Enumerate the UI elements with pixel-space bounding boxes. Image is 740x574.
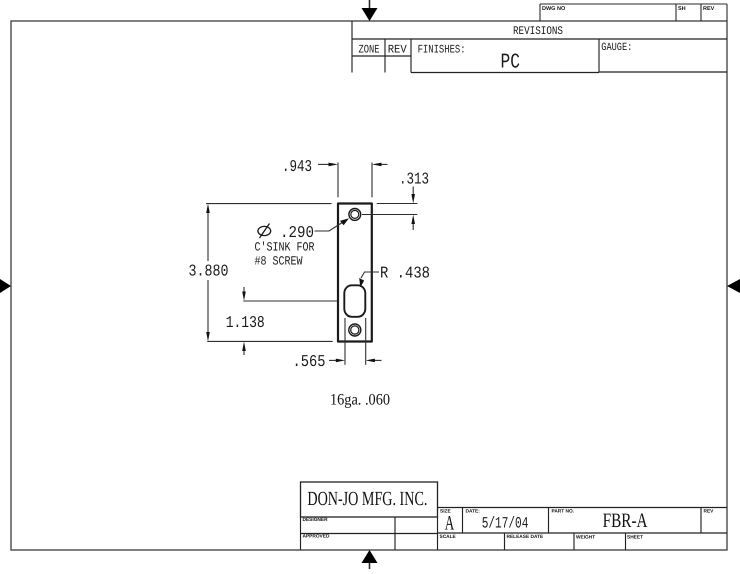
svg-text:REVISIONS: REVISIONS — [513, 25, 563, 38]
svg-text:ZONE: ZONE — [359, 44, 380, 57]
svg-text:#8 SCREW: #8 SCREW — [255, 255, 303, 269]
center marker right — [727, 279, 740, 293]
svg-text:GAUGE:: GAUGE: — [601, 42, 632, 54]
svg-text:REV: REV — [388, 44, 407, 57]
svg-text:C'SINK FOR: C'SINK FOR — [255, 241, 315, 255]
title block designer/approved rows — [301, 517, 438, 550]
svg-text:16ga. .060: 16ga. .060 — [330, 392, 390, 409]
dim .313 reference lines — [362, 204, 417, 215]
dim 3.880 arrows — [206, 204, 210, 342]
svg-text:WEIGHT: WEIGHT — [576, 535, 595, 541]
svg-text:SHEET: SHEET — [627, 535, 643, 541]
svg-text:DATE:: DATE: — [466, 509, 481, 515]
svg-text:.565: .565 — [293, 352, 326, 371]
title block right grid — [438, 508, 728, 551]
top strip header lines — [540, 4, 727, 21]
dim .565 arrows — [329, 359, 382, 363]
dim 1.138 slot centre line — [243, 300, 338, 302]
dim 3.880 extension line top — [206, 203, 332, 205]
svg-text:DESIGNER: DESIGNER — [303, 517, 329, 523]
diameter symbol — [258, 224, 271, 239]
svg-text:PC: PC — [501, 52, 521, 75]
svg-text:DWG NO: DWG NO — [542, 6, 566, 12]
svg-text:SCALE: SCALE — [440, 534, 457, 540]
svg-text:SH: SH — [678, 6, 686, 12]
center marker left — [0, 279, 11, 293]
dim .943 extension lines — [338, 163, 372, 198]
svg-text:R .438: R .438 — [380, 264, 430, 283]
svg-text:5/17/04: 5/17/04 — [482, 515, 529, 533]
dim .313 arrows — [411, 187, 415, 231]
svg-text:PART NO.: PART NO. — [552, 509, 575, 515]
bottom hole inner — [351, 326, 359, 334]
svg-text:A: A — [445, 512, 455, 534]
svg-text:DON-JO MFG. INC.: DON-JO MFG. INC. — [307, 488, 427, 510]
center marker top — [362, 0, 378, 21]
svg-text:FINISHES:: FINISHES: — [418, 44, 466, 57]
revisions table lines — [352, 21, 727, 73]
svg-text:1.138: 1.138 — [226, 313, 265, 332]
part outline — [338, 204, 372, 342]
top hole inner — [351, 210, 359, 218]
dim 1.138 bottom line — [207, 340, 332, 342]
svg-text:3.880: 3.880 — [189, 262, 229, 281]
slot — [344, 285, 365, 317]
svg-text:APPROVED: APPROVED — [303, 534, 330, 540]
dim .565 extension lines — [345, 318, 366, 365]
dim 3.880 dimension line — [207, 212, 209, 333]
svg-text:RELEASE DATE: RELEASE DATE — [507, 534, 544, 540]
svg-text:.290: .290 — [280, 223, 314, 242]
top hole outer — [349, 209, 361, 221]
bottom hole outer — [349, 324, 361, 336]
svg-text:.943: .943 — [282, 157, 312, 176]
leader R .438 — [359, 272, 379, 287]
dim .943 arrows — [318, 163, 388, 167]
dim 1.138 arrows — [242, 287, 246, 355]
svg-text:FBR-A: FBR-A — [603, 510, 648, 532]
center marker bottom — [362, 550, 378, 569]
svg-text:REV: REV — [703, 6, 715, 12]
title block company box — [301, 482, 438, 517]
svg-text:REV: REV — [704, 509, 715, 515]
svg-text:.313: .313 — [399, 170, 429, 189]
leader .290 — [315, 218, 350, 231]
